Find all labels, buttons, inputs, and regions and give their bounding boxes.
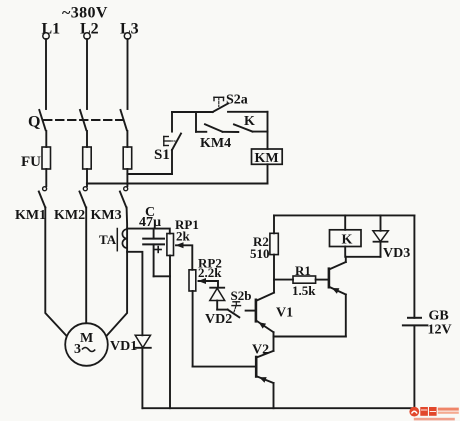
svg-text:L3: L3 xyxy=(120,21,139,38)
svg-text:V1: V1 xyxy=(276,306,293,321)
svg-text:L1: L1 xyxy=(42,21,61,38)
svg-text:KM2: KM2 xyxy=(54,208,85,223)
svg-text:47µ: 47µ xyxy=(139,215,161,230)
svg-text:M: M xyxy=(80,331,93,346)
svg-text:3: 3 xyxy=(74,342,81,357)
svg-text:S1: S1 xyxy=(154,147,170,163)
svg-text:510: 510 xyxy=(250,246,270,261)
svg-text:KM4: KM4 xyxy=(200,136,231,151)
svg-text:KM1: KM1 xyxy=(15,208,46,223)
svg-text:K: K xyxy=(342,233,353,248)
svg-text:2k: 2k xyxy=(176,229,191,244)
svg-text:VD2: VD2 xyxy=(205,312,232,327)
svg-text:R1: R1 xyxy=(295,263,311,278)
svg-text:V2: V2 xyxy=(252,343,269,358)
svg-text:~380V: ~380V xyxy=(62,5,108,22)
svg-text:1.5k: 1.5k xyxy=(292,283,316,298)
svg-text:GB: GB xyxy=(429,308,449,323)
svg-text:TA: TA xyxy=(99,232,117,247)
svg-text:S2a: S2a xyxy=(226,93,248,108)
svg-text:VD1: VD1 xyxy=(110,339,137,354)
svg-text:Q: Q xyxy=(28,114,40,131)
svg-text:S2b: S2b xyxy=(231,288,252,303)
svg-text:KM: KM xyxy=(255,151,279,166)
svg-text:FU: FU xyxy=(21,154,41,170)
svg-text:VD3: VD3 xyxy=(383,246,410,261)
svg-text:12V: 12V xyxy=(428,323,452,338)
svg-text:L2: L2 xyxy=(80,21,99,38)
svg-text:KM3: KM3 xyxy=(91,208,122,223)
svg-text:K: K xyxy=(244,114,255,129)
svg-text:2.2k: 2.2k xyxy=(198,265,222,280)
